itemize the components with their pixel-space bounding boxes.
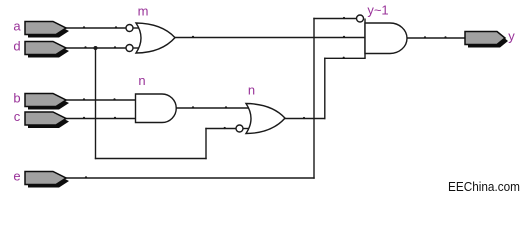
gate m OR body — [136, 23, 175, 53]
input pin b — [25, 94, 69, 110]
svg-text:y: y — [508, 29, 515, 44]
wire OR n output vertical up — [324, 58, 326, 118]
gate m input bubble top — [126, 25, 133, 32]
gate m input bubble bottom — [126, 45, 133, 52]
svg-text:n: n — [138, 73, 145, 88]
gate y~1 AND body — [365, 23, 407, 54]
wire d branch vertical up — [205, 129, 207, 159]
gate n OR body — [246, 104, 285, 134]
wire e to AND y~1 top bubble — [314, 18, 357, 20]
wire stub m top bubble — [133, 27, 139, 29]
svg-text:y~1: y~1 — [367, 3, 388, 18]
svg-text:c: c — [14, 109, 21, 124]
wire stub bubble to OR n — [243, 128, 249, 130]
wire a to gate m top bubble — [66, 27, 126, 29]
wire gate m output to AND y~1 middle input — [175, 37, 365, 39]
wire vertex dots — [83, 17, 447, 179]
wire to AND y~1 bottom input — [325, 57, 365, 59]
svg-text:a: a — [13, 19, 21, 34]
input pin e — [25, 172, 69, 188]
gate n AND body — [136, 94, 177, 123]
gate n OR input bubble — [236, 125, 243, 132]
wire d branch bottom horizontal — [96, 158, 207, 160]
svg-text:EEChina.com: EEChina.com — [448, 179, 520, 194]
wire AND y~1 output to pin y — [407, 37, 465, 39]
wire d branch vertical — [95, 48, 97, 159]
wire d to gate m bottom bubble — [66, 47, 126, 49]
wire e horizontal — [66, 177, 314, 179]
wire stub m bottom bubble — [133, 47, 139, 49]
svg-text:b: b — [13, 91, 20, 106]
wire OR n output — [285, 118, 325, 120]
wire b to AND n — [66, 99, 136, 101]
wire e vertical up — [313, 19, 315, 179]
svg-text:e: e — [13, 169, 20, 184]
svg-text:d: d — [13, 39, 20, 54]
junction dot d branch — [94, 46, 98, 50]
input pin a — [25, 22, 69, 38]
wire AND n output to OR n — [177, 107, 250, 109]
input pin d — [25, 42, 69, 58]
gate y~1 input bubble — [357, 15, 364, 22]
input pin c — [25, 112, 69, 128]
svg-text:n: n — [248, 83, 255, 98]
svg-text:m: m — [138, 3, 149, 18]
wire c to AND n — [65, 118, 136, 120]
wire d branch to OR n bubble — [206, 128, 236, 130]
output pin y — [465, 32, 508, 48]
gate y~1 AND left edge extension — [364, 19, 366, 59]
